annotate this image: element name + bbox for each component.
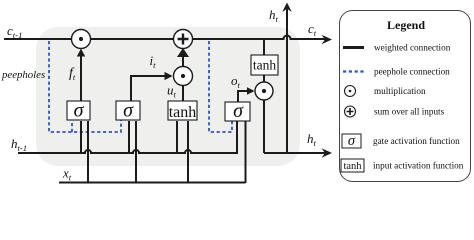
svg-text:multiplication: multiplication xyxy=(374,86,426,96)
svg-text:peephole connection: peephole connection xyxy=(374,67,450,77)
svg-text:input activation function: input activation function xyxy=(373,161,464,171)
svg-text:σ: σ xyxy=(348,133,356,149)
svg-text:σ: σ xyxy=(123,100,134,122)
svg-text:tanh: tanh xyxy=(253,58,276,73)
svg-text:σ: σ xyxy=(233,100,244,122)
svg-text:tanh: tanh xyxy=(343,161,362,172)
svg-text:gate activation function: gate activation function xyxy=(373,136,460,146)
svg-text:peepholes: peepholes xyxy=(1,69,45,81)
svg-text:Legend: Legend xyxy=(387,18,425,32)
svg-text:sum over all inputs: sum over all inputs xyxy=(374,107,445,117)
svg-text:σ: σ xyxy=(74,100,85,122)
svg-text:tanh: tanh xyxy=(169,104,197,121)
svg-text:weighted connection: weighted connection xyxy=(374,43,451,53)
